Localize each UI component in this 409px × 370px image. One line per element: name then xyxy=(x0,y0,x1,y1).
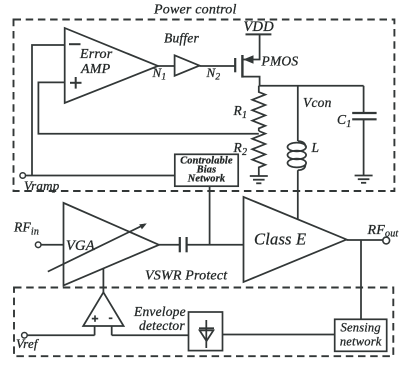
wire bias network to RF path xyxy=(209,186,211,245)
svg-text:VSWR Protect: VSWR Protect xyxy=(145,269,228,284)
amplifier VGA xyxy=(64,203,160,286)
svg-text:L: L xyxy=(311,140,320,155)
svg-text:Class E: Class E xyxy=(254,230,306,249)
svg-text:N2: N2 xyxy=(206,65,221,83)
svg-text:Envelope: Envelope xyxy=(133,304,186,319)
capacitor C1 xyxy=(352,86,376,176)
op-amp U1 Error AMP xyxy=(65,28,158,103)
box envelope detector xyxy=(189,312,223,351)
amplifier Class E xyxy=(244,197,347,282)
VGA gain arrow xyxy=(48,223,147,271)
wire class E output xyxy=(347,239,384,241)
svg-text:Vcon: Vcon xyxy=(303,95,332,110)
terminal RFout xyxy=(383,237,390,244)
svg-text:R2: R2 xyxy=(233,140,248,158)
buffer U2 xyxy=(175,55,200,76)
svg-text:Error: Error xyxy=(79,47,113,62)
svg-text:N1: N1 xyxy=(152,65,167,83)
box controlable bias network xyxy=(175,154,238,186)
svg-text:network: network xyxy=(340,335,382,349)
svg-text:Vref: Vref xyxy=(16,336,40,351)
svg-text:RFin: RFin xyxy=(13,220,39,238)
wire drain rail xyxy=(259,85,364,87)
wire VGA to coupling cap xyxy=(159,244,179,246)
svg-text:detector: detector xyxy=(139,318,185,333)
terminal Vramp xyxy=(20,173,26,179)
wire comparator to envelope detector xyxy=(112,334,189,336)
capacitor coupling xyxy=(180,237,187,252)
wire non-inverting input feedback xyxy=(38,82,258,133)
svg-text:Sensing: Sensing xyxy=(341,321,381,335)
wire buffer to PMOS gate xyxy=(200,65,235,67)
svg-text:C1: C1 xyxy=(337,112,351,130)
terminal Vref xyxy=(22,333,28,339)
svg-text:Power control: Power control xyxy=(153,3,237,18)
resistor R1 xyxy=(252,86,265,131)
svg-text:Buffer: Buffer xyxy=(164,31,199,46)
wire opamp output to buffer xyxy=(158,65,175,67)
svg-text:AMP: AMP xyxy=(80,62,111,77)
resistor R2 xyxy=(252,131,265,170)
wire RFout to sensing network xyxy=(360,240,362,320)
ground below R2 xyxy=(250,170,268,184)
wire VGA to comparator xyxy=(102,268,104,292)
wire Vcon branch xyxy=(297,86,299,141)
wire Vramp to bias network xyxy=(26,175,175,177)
wire coupling cap to class E xyxy=(187,244,243,246)
svg-text:PMOS: PMOS xyxy=(261,54,299,69)
power control dashed box xyxy=(14,20,395,192)
terminal RFin xyxy=(35,242,41,248)
svg-text:R1: R1 xyxy=(233,103,248,121)
ground below C1 xyxy=(355,176,373,183)
svg-text:RFout: RFout xyxy=(367,223,399,240)
diode D1 xyxy=(199,320,214,348)
wire inverting input xyxy=(32,45,65,176)
svg-text:Network: Network xyxy=(187,174,226,185)
svg-text:VDD: VDD xyxy=(244,19,275,35)
wire RFin to VGA xyxy=(41,244,64,246)
inductor L xyxy=(288,141,307,170)
box sensing network xyxy=(335,319,387,351)
wire Vref to comparator xyxy=(27,334,94,336)
VSWR protect dashed box xyxy=(14,288,393,357)
comparator U3 xyxy=(83,292,123,335)
supply VDD xyxy=(246,33,272,35)
transistor Q1 PMOS xyxy=(235,34,259,85)
wire envelope detector to sensing network xyxy=(223,334,335,336)
svg-text:Vramp: Vramp xyxy=(24,178,60,193)
wire L to class E xyxy=(297,170,299,219)
